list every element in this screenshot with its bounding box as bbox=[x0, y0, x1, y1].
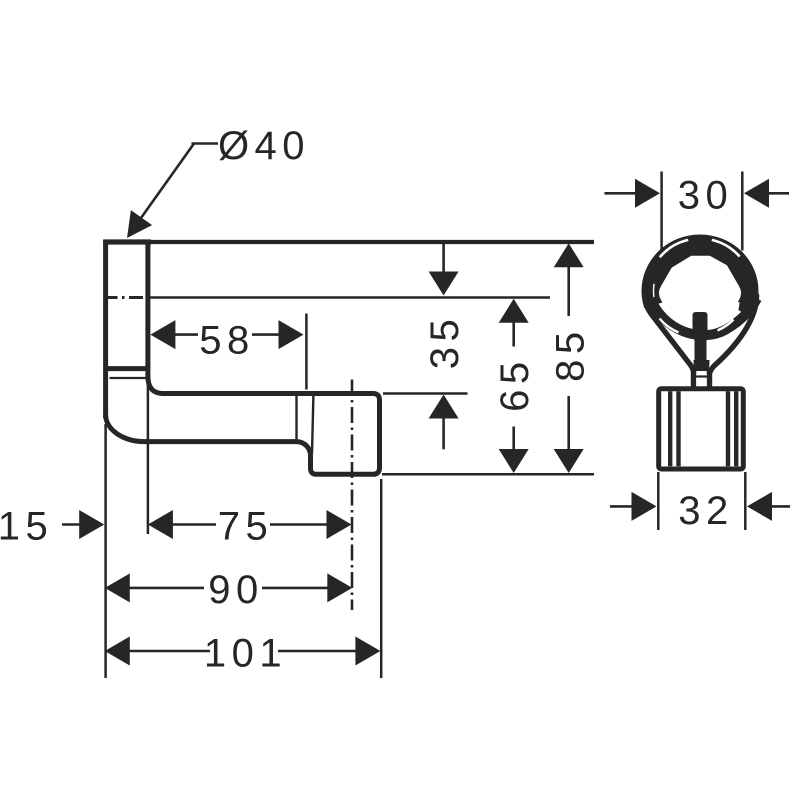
svg-text:Ø40: Ø40 bbox=[218, 124, 310, 168]
svg-text:90: 90 bbox=[208, 568, 264, 612]
svg-text:85: 85 bbox=[549, 326, 593, 382]
svg-text:65: 65 bbox=[493, 356, 537, 412]
svg-text:35: 35 bbox=[423, 314, 467, 370]
svg-text:101: 101 bbox=[204, 631, 287, 675]
svg-text:58: 58 bbox=[199, 319, 255, 363]
svg-text:75: 75 bbox=[218, 505, 274, 549]
svg-text:32: 32 bbox=[678, 489, 734, 533]
svg-text:15: 15 bbox=[0, 505, 53, 549]
svg-text:30: 30 bbox=[678, 174, 734, 218]
